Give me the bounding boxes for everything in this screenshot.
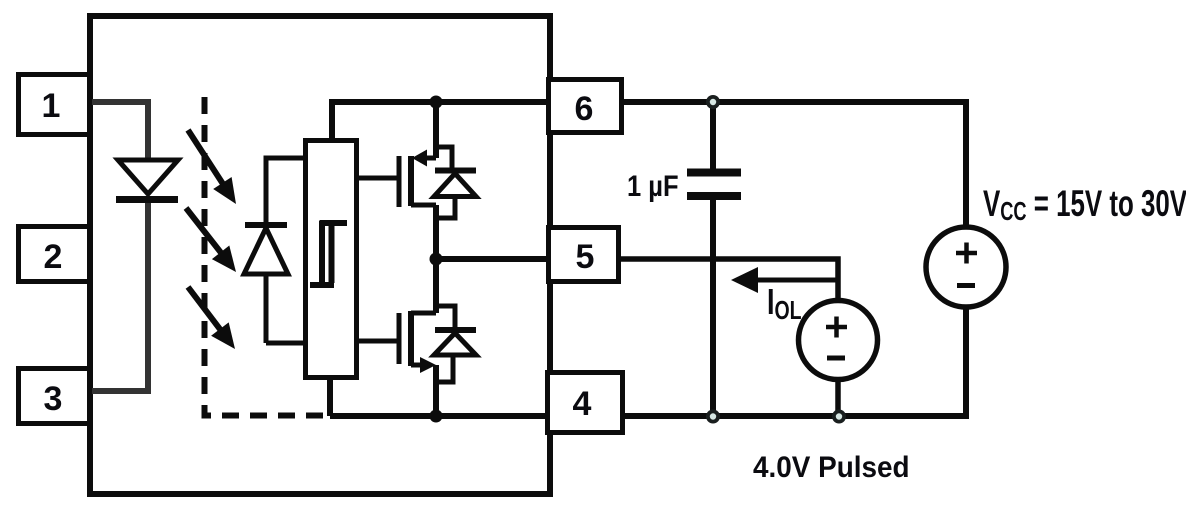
schmitt trigger amplifier box U2	[306, 141, 357, 378]
wire: photodiode anode vertical	[264, 156, 269, 226]
V1 minus sign	[957, 283, 975, 288]
wire: LED cathode to pin3 (gray)	[92, 200, 148, 391]
transistor Q1 channel bar	[408, 156, 414, 206]
junction node at Q1 drain	[430, 96, 443, 109]
svg-text:4.0V Pulsed: 4.0V Pulsed	[753, 451, 910, 484]
pin 2 box	[19, 227, 90, 282]
hysteresis symbol top bar	[320, 220, 347, 226]
transistor Q2 drain stub	[411, 311, 436, 316]
transistor Q2 channel bar	[408, 311, 414, 366]
wire: pin4 ground rail to VCC source negative	[625, 306, 966, 416]
wire: Q1 to output node	[433, 205, 439, 259]
svg-text:1 µF: 1 µF	[627, 169, 679, 202]
transistor Q1 gate lead	[359, 176, 399, 181]
svg-text:1: 1	[42, 87, 61, 125]
light arrow 1	[188, 130, 236, 204]
capacitor C1 bottom lead	[710, 200, 716, 416]
svg-text:VCC = 15V to 30V: VCC = 15V to 30V	[983, 182, 1186, 225]
diode D3 triangle	[434, 174, 476, 197]
transistor Q1 source stub with arrow	[412, 150, 436, 167]
dashed optical isolation boundary	[205, 97, 333, 416]
light arrow 3	[188, 287, 235, 349]
svg-text:3: 3	[44, 380, 63, 418]
V1 plus sign	[956, 243, 977, 264]
transistor Q2 gate bar	[397, 313, 402, 364]
wire: Q1 drain vertical from VCC rail	[433, 102, 439, 158]
transistor Q1 drain stub	[411, 203, 436, 208]
wire: output node to pin5	[436, 256, 549, 262]
wire: Q2 body diode bottom branch	[437, 355, 453, 382]
wire: pulsed source bottom lead	[835, 379, 841, 416]
wire: photodiode cathode vertical	[264, 274, 269, 343]
capacitor C1 top plate	[687, 169, 741, 177]
wire: pin5 to pulsed source	[621, 259, 838, 301]
transistor Q2 source stub with arrow	[411, 357, 436, 373]
svg-text:IOL: IOL	[767, 281, 802, 324]
wire: schmitt box bottom to ground rail	[327, 378, 333, 416]
pin 3 box	[19, 369, 90, 424]
pin 6 box	[549, 80, 622, 133]
wire: pin6 to VCC rail corner	[624, 102, 966, 228]
hysteresis symbol right vertical	[329, 223, 335, 283]
wire: photodiode branch top stub	[266, 156, 303, 161]
wire: schmitt box top to VCC rail	[332, 102, 549, 140]
LED D1 triangle	[118, 160, 178, 194]
hysteresis symbol bottom bar	[310, 282, 334, 288]
wire: pin1 to LED anode (gray)	[92, 102, 148, 161]
V2 minus sign	[827, 356, 845, 361]
pulsed voltage source V2 circle	[799, 301, 878, 380]
transistor Q2 gate lead	[359, 339, 399, 344]
light arrow 2	[186, 208, 236, 272]
IC package outline U1	[90, 16, 550, 494]
V2 plus sign	[826, 317, 847, 338]
LED D1 cathode bar	[116, 196, 178, 203]
diode D4 cathode bar	[435, 327, 476, 333]
wire: Q2 source to ground rail	[433, 365, 439, 416]
pin 4 box	[548, 373, 623, 433]
diode D3 cathode bar	[435, 168, 476, 174]
wire: Q1 body diode top branch	[436, 147, 452, 168]
svg-text:4: 4	[573, 385, 592, 423]
svg-text:2: 2	[44, 238, 63, 276]
pin 5 box	[549, 228, 619, 282]
capacitor C1 top lead	[710, 102, 716, 169]
wire: Q1 body diode bottom branch	[436, 197, 455, 219]
photodiode D2 cathode bar	[245, 222, 287, 228]
transistor Q1 gate bar	[397, 156, 402, 207]
junction node at output	[430, 253, 443, 266]
diode D4 triangle	[434, 333, 476, 355]
IOL current arrow	[731, 267, 838, 293]
wire: photodiode branch bottom stub	[266, 341, 303, 346]
junction ring at C1 top	[706, 95, 720, 109]
svg-text:6: 6	[575, 90, 594, 128]
VCC voltage source V1 circle	[926, 227, 1006, 307]
pin 1 box	[19, 75, 90, 135]
wire: Q2 drain vertical from output node	[433, 259, 439, 313]
wire: Q2 body diode top branch	[436, 306, 455, 327]
wire: internal bottom rail to pin4	[330, 413, 549, 419]
junction ring at C1 bottom	[706, 410, 720, 424]
junction node at ground rail	[430, 410, 443, 423]
photodiode D2 triangle	[244, 228, 288, 274]
svg-text:5: 5	[576, 238, 595, 276]
capacitor C1 bottom plate	[687, 192, 741, 200]
junction ring at V2 bottom	[832, 410, 846, 424]
hysteresis symbol left vertical	[319, 221, 325, 288]
